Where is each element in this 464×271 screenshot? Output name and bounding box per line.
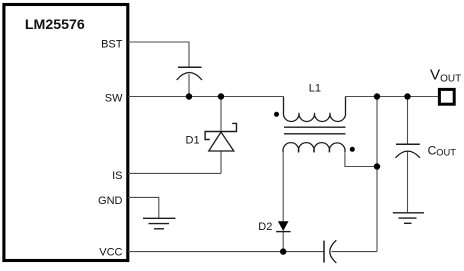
- phase dot L1 secondary: [350, 147, 355, 152]
- node VOUT terminal square: [439, 89, 454, 104]
- wire bootstrap cap bottom to SW line: [188, 74, 190, 97]
- junction dot SW line / right bus: [374, 93, 380, 99]
- svg-text:L1: L1: [309, 83, 321, 95]
- ground symbol below COUT: [393, 213, 424, 224]
- wire VCC pin line: [128, 251, 324, 253]
- svg-text:GND: GND: [98, 195, 123, 207]
- wire secondary right terminal: [345, 153, 377, 167]
- wire D2 cathode to VCC line: [282, 232, 284, 252]
- svg-text:SW: SW: [105, 92, 123, 104]
- junction dot D2 / VCC line: [280, 248, 286, 254]
- svg-text:VCC: VCC: [99, 247, 122, 259]
- IC U1 LM25576 box: [4, 5, 128, 261]
- junction dot SW line / COUT: [404, 93, 410, 99]
- wire D1 cathode to SW line: [220, 97, 222, 131]
- svg-text:LM25576: LM25576: [25, 17, 85, 33]
- svg-text:IS: IS: [112, 170, 122, 182]
- ground symbol at GND pin: [143, 218, 176, 229]
- inductor L1 core lines: [284, 127, 346, 134]
- inductor L1 primary winding: [283, 97, 345, 122]
- diode D1 Schottky cathode bar with hooks: [205, 123, 236, 139]
- diode D1 triangle (anode): [209, 132, 234, 151]
- svg-text:D1: D1: [186, 134, 200, 146]
- wire IS pin line: [128, 172, 221, 174]
- phase dot L1 primary: [274, 112, 279, 117]
- wire COUT bottom to ground: [407, 152, 409, 213]
- junction dot SW/D1: [218, 93, 224, 99]
- junction dot secondary right / bus: [374, 163, 380, 169]
- wire D1 anode down to IS line: [220, 151, 222, 173]
- capacitor bootstrap (BST-SW) plates: [177, 67, 202, 80]
- svg-text:D2: D2: [258, 221, 272, 233]
- wire right vertical bus: [376, 97, 378, 252]
- diode D2 (filled, pointing down): [276, 221, 290, 231]
- wire GND pin to ground: [128, 197, 159, 218]
- wire SW line: [128, 96, 284, 98]
- capacitor series (VCC coupling) plates: [324, 240, 336, 263]
- wire BST pin to bootstrap cap: [128, 42, 189, 67]
- wire secondary winding left to D2: [282, 153, 284, 222]
- wire SW line right section to VOUT: [346, 96, 439, 98]
- capacitor COUT plates: [396, 144, 420, 158]
- wire series cap to right bus: [332, 251, 378, 253]
- inductor L1 secondary winding: [283, 143, 345, 153]
- svg-text:BST: BST: [101, 38, 123, 50]
- wire COUT top: [407, 97, 409, 145]
- junction dot SW/bootstrap cap: [186, 93, 192, 99]
